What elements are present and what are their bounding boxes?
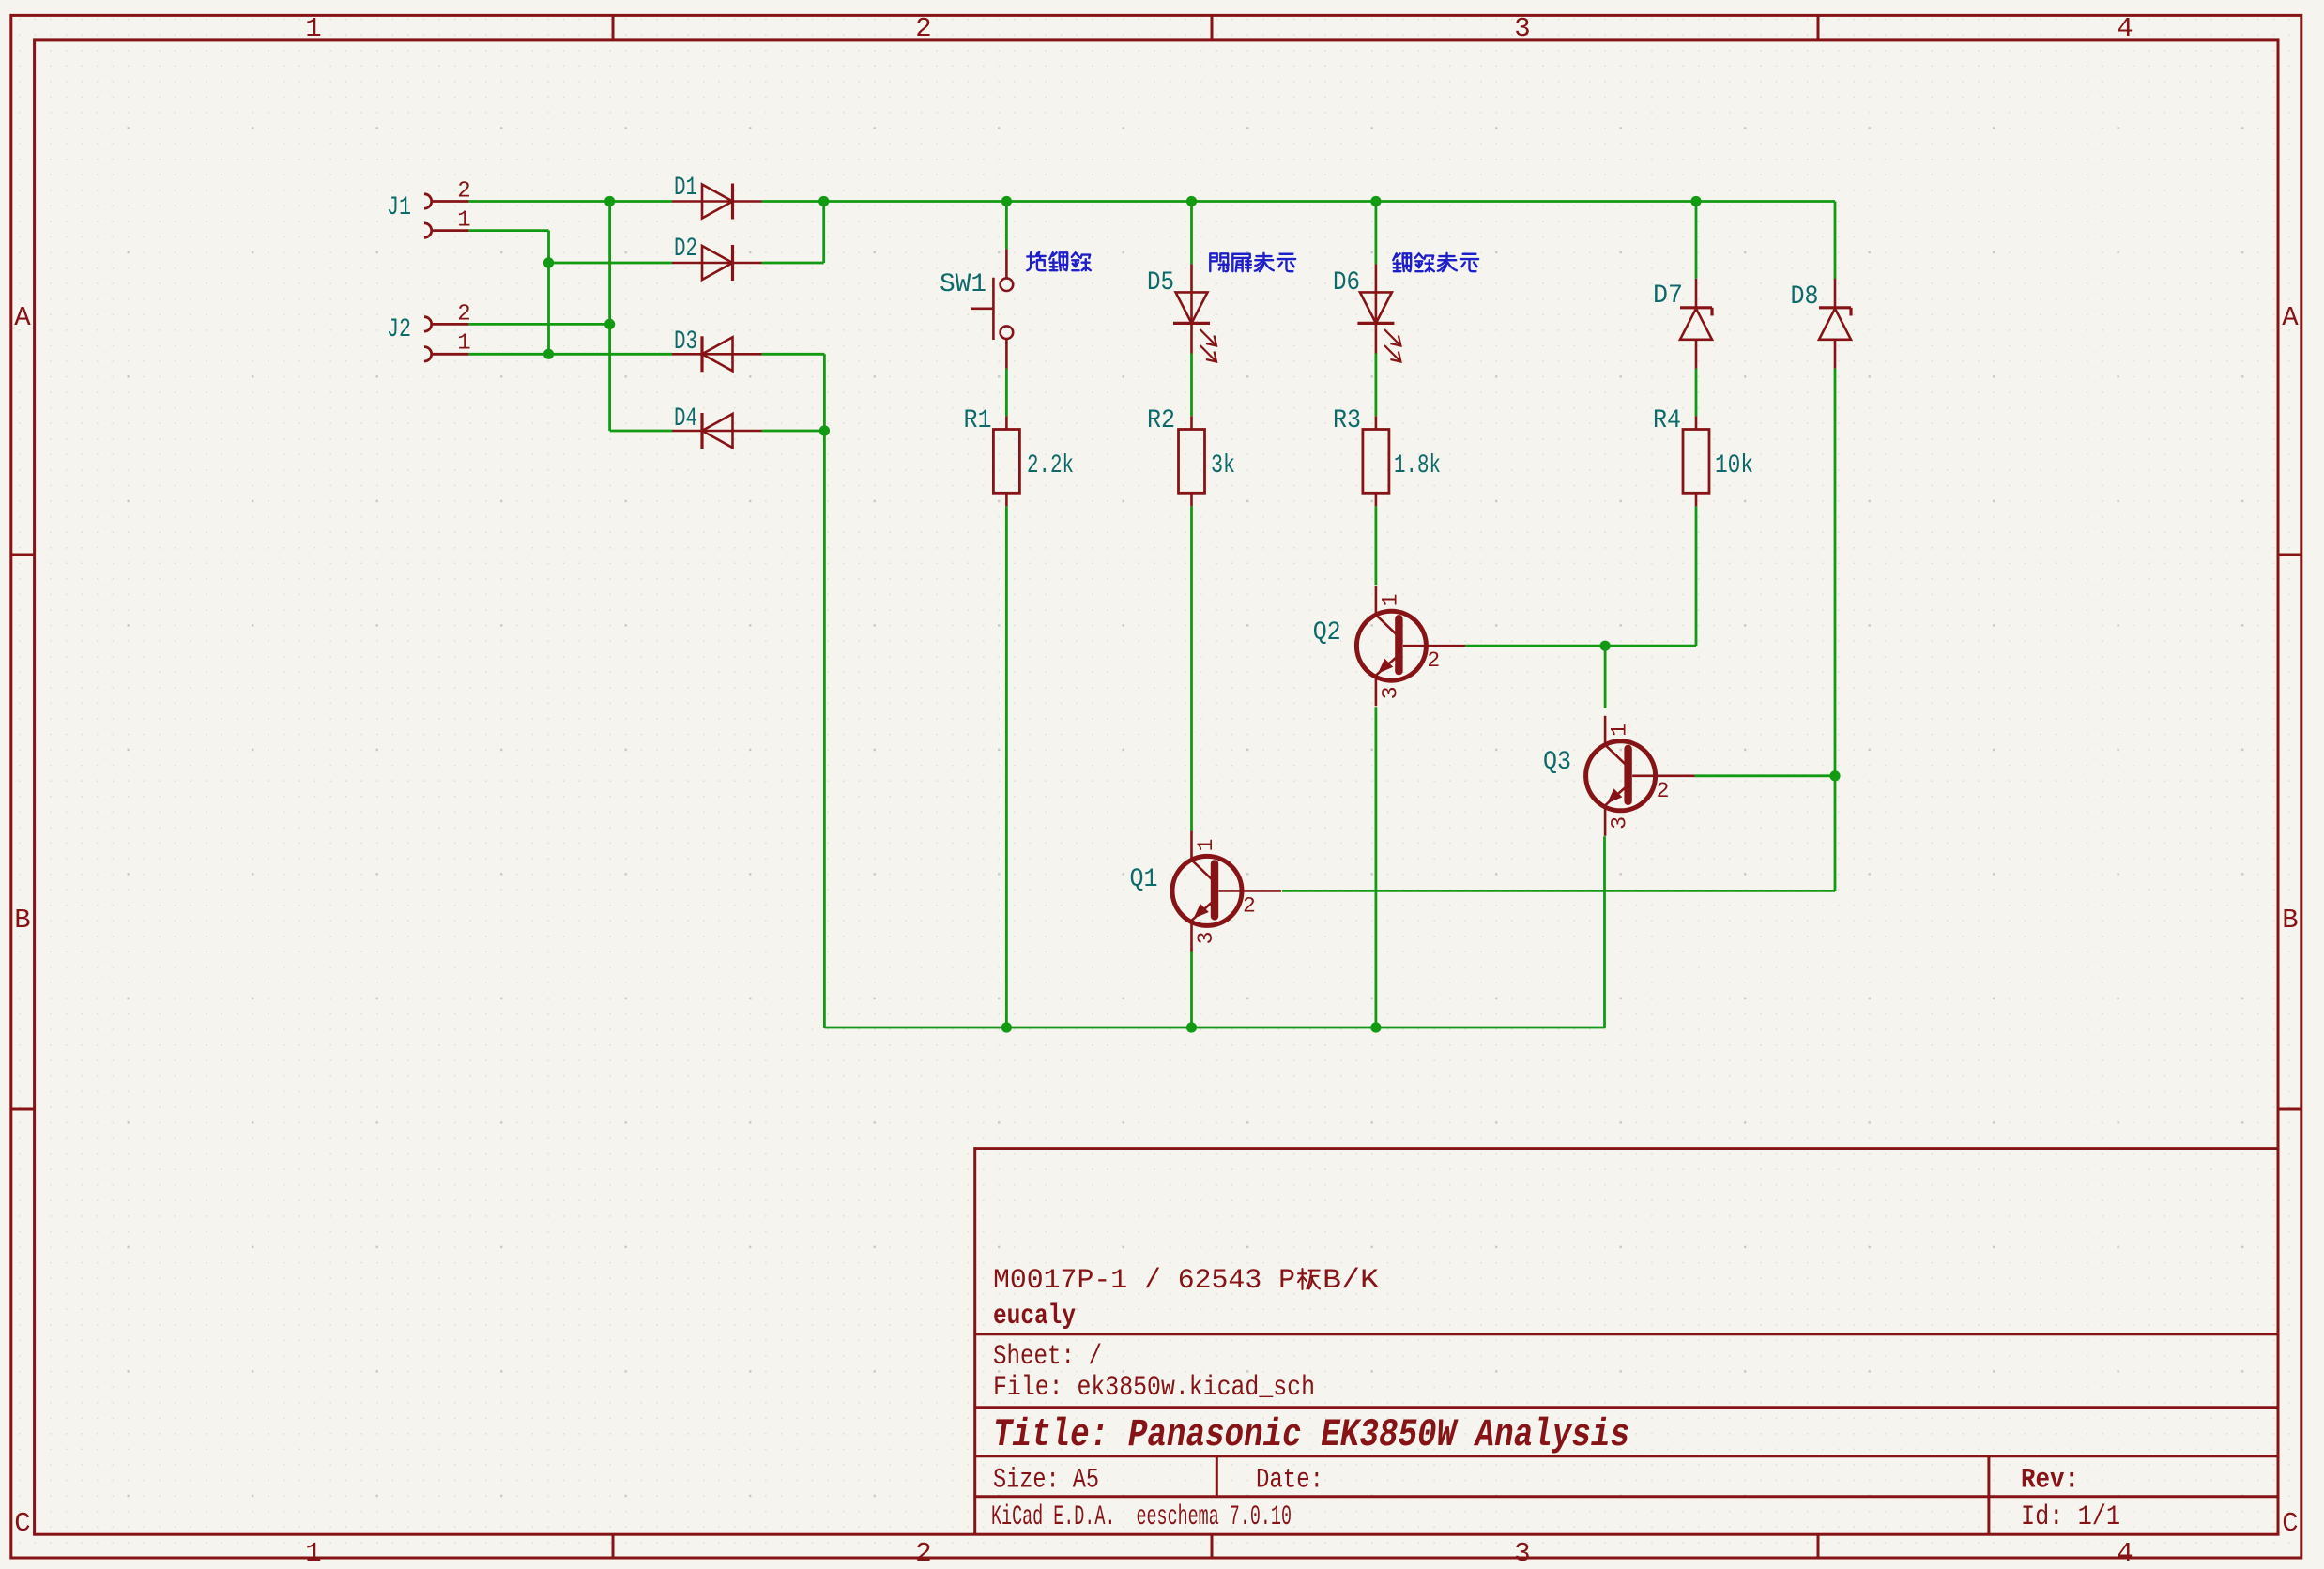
- LED D6: [1357, 264, 1400, 361]
- wire Q1 emitter to bottom bus: [1190, 951, 1193, 1028]
- svg-text:D4: D4: [674, 404, 697, 434]
- LED D5: [1173, 264, 1216, 361]
- wire J1 pin2 to top bus: [468, 200, 672, 203]
- svg-text:1: 1: [305, 1538, 321, 1569]
- svg-text:3k: 3k: [1211, 451, 1235, 480]
- R3 reference: [1333, 406, 1361, 435]
- svg-text:SW1: SW1: [940, 270, 986, 299]
- junction (584.5,377.3): [543, 349, 554, 359]
- J1 pin 2 number: [457, 179, 470, 205]
- Q1 pin 3 number: [1194, 932, 1218, 945]
- junction (1072.4,214.5): [1001, 196, 1012, 206]
- R4 value 10k: [1715, 451, 1753, 480]
- svg-text:10k: 10k: [1715, 451, 1753, 480]
- title block divider rev/id: [1987, 1456, 1990, 1535]
- svg-text:D3: D3: [674, 328, 697, 357]
- title block text Title: [993, 1412, 1629, 1457]
- svg-text:A: A: [14, 302, 31, 333]
- diode D1: [672, 184, 762, 220]
- transistor Q3: [1586, 716, 1695, 836]
- svg-text:C: C: [2282, 1508, 2298, 1539]
- svg-text:Rev:: Rev:: [2021, 1465, 2079, 1497]
- transistor Q1: [1172, 830, 1281, 951]
- junction (1269.5,214.5): [1186, 196, 1197, 206]
- wire D8 to Q1 base riser: [1834, 369, 1837, 891]
- svg-text:4: 4: [2117, 13, 2133, 44]
- zener diode D7: [1680, 279, 1712, 369]
- Q2 reference: [1313, 618, 1341, 647]
- title block outline: [975, 1149, 2278, 1535]
- wire Q3 emitter to bottom bus: [1603, 836, 1606, 1028]
- svg-text:D7: D7: [1653, 282, 1683, 311]
- svg-text:D6: D6: [1333, 268, 1360, 297]
- wire R2 to Q1 collector: [1190, 506, 1193, 830]
- title block divider size/date: [1216, 1456, 1218, 1497]
- R3 value 1.8k: [1394, 451, 1441, 480]
- svg-text:1: 1: [1378, 593, 1402, 606]
- svg-text:D5: D5: [1147, 268, 1174, 297]
- transistor Q2: [1356, 586, 1465, 706]
- diode D2: [672, 245, 762, 281]
- svg-text:R3: R3: [1333, 406, 1361, 435]
- junction (584.5,280): [543, 257, 554, 267]
- resistor R3: [1363, 416, 1389, 506]
- label KaijouHyouji (unlocked indicator): [1393, 253, 1478, 271]
- D1 reference: [674, 174, 697, 203]
- junction (877.7,214.5): [818, 196, 829, 206]
- svg-text:D2: D2: [674, 235, 697, 264]
- wire Q1 base horizontal: [1282, 890, 1835, 892]
- Q2 pin 3 number: [1378, 686, 1402, 699]
- wire D6 to R3: [1375, 354, 1378, 417]
- Q3 reference: [1543, 748, 1571, 777]
- title block line under size/date: [975, 1495, 2278, 1498]
- J2 reference: [387, 315, 411, 344]
- svg-text:1.8k: 1.8k: [1394, 451, 1441, 480]
- wire D3 cathode to right riser: [762, 353, 825, 356]
- junction (649.6,214.5): [604, 196, 615, 206]
- D4 reference: [674, 404, 697, 434]
- D8 reference: [1791, 282, 1819, 312]
- J1 reference: [387, 193, 411, 222]
- svg-text:Q2: Q2: [1313, 618, 1341, 647]
- svg-text:1: 1: [1608, 724, 1632, 737]
- svg-text:R2: R2: [1147, 406, 1175, 435]
- D2 reference: [674, 235, 697, 264]
- svg-text:2: 2: [1427, 648, 1440, 673]
- svg-text:2: 2: [457, 179, 470, 205]
- wire R3 to Q2 collector: [1375, 506, 1378, 585]
- junction (1807.0,214.5): [1690, 196, 1701, 206]
- svg-text:B: B: [14, 905, 30, 936]
- Q3 pin 2 number: [1657, 779, 1670, 803]
- svg-text:D8: D8: [1791, 282, 1819, 312]
- diode D4: [672, 413, 762, 449]
- title block text company/comment M0017P-1: [993, 1265, 1379, 1297]
- svg-text:1: 1: [457, 208, 470, 234]
- junction (878.4,459): [819, 425, 830, 435]
- J2 pin 2 number: [457, 302, 470, 328]
- svg-text:3: 3: [1378, 686, 1402, 699]
- wire top bus to D6: [1375, 202, 1378, 265]
- R4 reference: [1653, 406, 1681, 435]
- Q2 pin 2 number: [1427, 648, 1440, 673]
- R2 value 3k: [1211, 451, 1235, 480]
- title block text Rev: [2021, 1465, 2079, 1497]
- D5 reference: [1147, 268, 1174, 297]
- wire top bus to D7: [1695, 202, 1698, 279]
- wire J1 pin1 drop to D2 net: [547, 231, 550, 355]
- junction (1955.0,826.8): [1829, 770, 1840, 781]
- svg-text:2: 2: [915, 1538, 931, 1569]
- wire D5 to R2: [1190, 354, 1193, 417]
- wire D2 anode: [549, 262, 673, 265]
- svg-text:A: A: [2282, 302, 2299, 333]
- J1 pin 1 number: [457, 208, 470, 234]
- wire top bus D1 to D8: [762, 200, 1836, 203]
- title block text Sheet: [993, 1341, 1102, 1373]
- R2 reference: [1147, 406, 1175, 435]
- Q1 pin 2 number: [1243, 893, 1256, 918]
- D6 reference: [1333, 268, 1360, 297]
- diode D3: [672, 336, 762, 372]
- switch SW1: [971, 249, 1013, 368]
- wire top bus corner to D8: [1834, 202, 1837, 280]
- R1 value 2.2k: [1027, 451, 1074, 480]
- wire D2 cathode to riser: [762, 262, 824, 265]
- wire bottom bus: [824, 1027, 1604, 1029]
- svg-text:Sheet: /: Sheet: /: [993, 1341, 1102, 1373]
- title block text File: [993, 1372, 1315, 1404]
- svg-text:B/K: B/K: [1323, 1265, 1379, 1297]
- title block text Id: [2021, 1501, 2120, 1533]
- svg-text:Title: Panasonic EK3850W Analy: Title: Panasonic EK3850W Analysis: [993, 1412, 1629, 1457]
- wire top bus to D5: [1190, 202, 1193, 265]
- D7 reference: [1653, 282, 1683, 311]
- wire D4 cathode to junction: [762, 430, 825, 433]
- svg-text:File: ek3850w.kicad_sch: File: ek3850w.kicad_sch: [993, 1372, 1315, 1404]
- wire D1 anode net vertical: [608, 202, 611, 432]
- svg-text:3: 3: [1608, 816, 1632, 830]
- wire J1 pin1 horizontal: [468, 229, 548, 232]
- junction (1710.1,688.2): [1600, 641, 1611, 651]
- wire D7 to R4: [1695, 369, 1698, 417]
- svg-text:3: 3: [1194, 932, 1218, 945]
- svg-text:Id: 1/1: Id: 1/1: [2021, 1501, 2120, 1533]
- resistor R4: [1683, 416, 1709, 506]
- zener diode D8: [1819, 279, 1851, 369]
- junction (1072.4,1095.0): [1001, 1022, 1012, 1032]
- wire Q2 base junction to Q3 collector: [1604, 646, 1607, 708]
- SW1 reference: [940, 270, 986, 299]
- wire SW1 to R1: [1005, 369, 1008, 417]
- junction (1465.9,1095.0): [1370, 1022, 1381, 1032]
- junction (1269.5,1095.0): [1186, 1022, 1197, 1032]
- wire top bus to SW1: [1005, 202, 1008, 250]
- Q1 reference: [1130, 865, 1158, 894]
- connector J1: [424, 194, 468, 238]
- Q3 pin 3 number: [1608, 816, 1632, 830]
- svg-text:C: C: [14, 1508, 30, 1539]
- svg-text:2.2k: 2.2k: [1027, 451, 1074, 480]
- R1 reference: [964, 406, 992, 435]
- wire Q2 emitter to bottom bus: [1375, 707, 1378, 1028]
- svg-text:eucaly: eucaly: [993, 1301, 1076, 1333]
- svg-text:1: 1: [1194, 839, 1218, 852]
- D3 reference: [674, 328, 697, 357]
- wire R1 to bottom bus: [1005, 506, 1008, 1028]
- svg-text:R1: R1: [964, 406, 992, 435]
- wire D4 anode horizontal: [610, 430, 672, 433]
- svg-text:M0017P-1 / 62543 P: M0017P-1 / 62543 P: [993, 1265, 1295, 1297]
- connector J2: [424, 317, 468, 361]
- svg-text:KiCad E.D.A. eeschema 7.0.10: KiCad E.D.A. eeschema 7.0.10: [991, 1501, 1292, 1533]
- wire Q3 base to D8 column: [1695, 774, 1835, 777]
- svg-text:R4: R4: [1653, 406, 1681, 435]
- svg-text:4: 4: [2117, 1538, 2133, 1569]
- title block text KiCad version: [991, 1501, 1292, 1533]
- title block line under company: [975, 1333, 2278, 1335]
- Q1 pin 1 number: [1194, 839, 1218, 852]
- wire D2 riser to top bus: [822, 202, 825, 264]
- Q2 pin 1 number: [1378, 593, 1402, 606]
- title block text Size: [993, 1465, 1099, 1497]
- title block text Date: [1256, 1465, 1323, 1497]
- wire right riser D3/D4 to bottom bus: [823, 354, 826, 1028]
- svg-text:1: 1: [305, 13, 321, 44]
- wire R4 to Q2 base row: [1695, 506, 1698, 646]
- svg-text:Q1: Q1: [1130, 865, 1158, 894]
- wire Q2 base to R4 column: [1466, 645, 1697, 647]
- Q3 pin 1 number: [1608, 724, 1632, 737]
- title block line under title: [975, 1455, 2278, 1457]
- label SeiKaijou (lock/unlock): [1027, 252, 1091, 270]
- junction (649.6,345.4): [604, 319, 615, 329]
- wire J2 pin1 to D3: [468, 353, 672, 356]
- resistor R1: [993, 416, 1019, 506]
- svg-text:2: 2: [1243, 893, 1256, 918]
- label KaihiHyouji (door-open indicator): [1210, 253, 1295, 271]
- title block line under file: [975, 1406, 2278, 1409]
- svg-text:Size: A5: Size: A5: [993, 1465, 1099, 1497]
- svg-text:2: 2: [1657, 779, 1670, 803]
- title block text eucaly: [993, 1301, 1076, 1333]
- svg-text:3: 3: [1514, 13, 1530, 44]
- wire J2 pin2 horizontal: [468, 323, 609, 326]
- svg-text:Date:: Date:: [1256, 1465, 1323, 1497]
- svg-text:1: 1: [457, 331, 470, 357]
- svg-text:B: B: [2282, 905, 2298, 936]
- junction (1465.9,214.5): [1370, 196, 1381, 206]
- svg-text:2: 2: [457, 302, 470, 328]
- resistor R2: [1179, 416, 1205, 506]
- svg-text:Q3: Q3: [1543, 748, 1571, 777]
- svg-text:3: 3: [1514, 1538, 1530, 1569]
- J2 pin 1 number: [457, 331, 470, 357]
- svg-text:J1: J1: [387, 193, 411, 222]
- svg-text:2: 2: [915, 13, 931, 44]
- svg-text:J2: J2: [387, 315, 411, 344]
- svg-text:D1: D1: [674, 174, 697, 203]
